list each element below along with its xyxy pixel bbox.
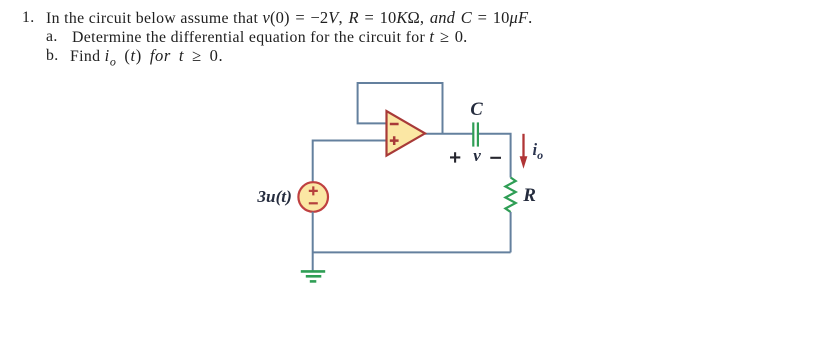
label R (522, 185, 536, 206)
current arrow io (520, 134, 528, 169)
wire: resistor down to bottom rail (510, 212, 512, 252)
capacitor C (473, 122, 478, 146)
svg-text:io: io (533, 140, 544, 162)
label io (533, 140, 544, 162)
problem text line 2 (46, 27, 58, 46)
svg-text:3u(t): 3u(t) (256, 187, 291, 206)
svg-text:R: R (522, 185, 536, 206)
voltage source VS1 3u(t) (298, 182, 328, 212)
label C (470, 100, 483, 120)
wire: bottom rail (313, 251, 511, 253)
svg-text:C: C (470, 100, 483, 120)
problem text line 1 (22, 8, 35, 27)
wire: op-amp output to capacitor and down right rail top (425, 134, 511, 178)
resistor R (505, 178, 515, 213)
label 3u(t) (256, 187, 291, 206)
ground (301, 271, 325, 281)
wire: feedback loop from inverting input up over to output (358, 83, 443, 134)
wire: source bottom down through junction to ground (312, 212, 314, 271)
wire: left rail top (input node down to source) (312, 140, 314, 183)
wire: source to non-inverting input (313, 140, 387, 142)
problem text line 3 (46, 46, 59, 65)
op-amp U1 (387, 111, 426, 156)
svg-text:v: v (473, 146, 481, 165)
label + v - (capacitor polarity) (450, 146, 501, 165)
